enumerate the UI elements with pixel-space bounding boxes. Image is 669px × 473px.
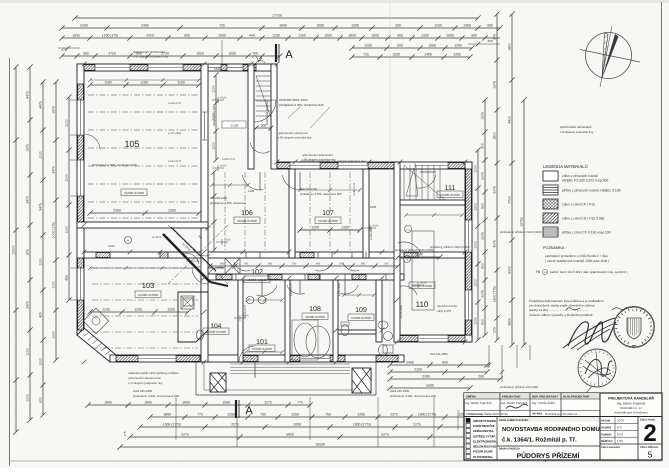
POZNAMKA note block bbox=[536, 245, 628, 274]
svg-text:e.225-2200: e.225-2200 bbox=[168, 132, 182, 135]
svg-text:1200 (175): 1200 (175) bbox=[102, 34, 118, 38]
svg-text:1200: 1200 bbox=[311, 226, 319, 230]
svg-text:e.180-2770: e.180-2770 bbox=[186, 260, 200, 263]
svg-text:900: 900 bbox=[481, 203, 485, 209]
svg-text:700: 700 bbox=[325, 413, 331, 417]
svg-text:275: 275 bbox=[493, 327, 497, 333]
svg-text:VYPRACOVAL: VYPRACOVAL bbox=[466, 413, 484, 416]
room label 105 bbox=[124, 139, 139, 149]
room 107 info box bbox=[315, 217, 341, 224]
svg-text:200: 200 bbox=[395, 24, 401, 28]
svg-text:oplechování dešťovodní: oplechování dešťovodní bbox=[302, 153, 333, 157]
svg-text:425: 425 bbox=[39, 312, 43, 318]
svg-text:1000: 1000 bbox=[316, 24, 324, 28]
exterior wall top (right section) bbox=[277, 162, 472, 169]
drawing frame left border bbox=[9, 58, 11, 466]
svg-text:KONSTRUKČNÍ: KONSTRUKČNÍ bbox=[473, 424, 495, 428]
svg-text:1830: 1830 bbox=[348, 34, 356, 38]
svg-text:600: 600 bbox=[397, 44, 403, 48]
window sill stubs left wall bbox=[70, 100, 77, 300]
svg-text:dveřní blok 280/280: dveřní blok 280/280 bbox=[266, 101, 269, 125]
svg-text:MĚŘÍTKO: MĚŘÍTKO bbox=[601, 439, 613, 443]
svg-text:1200: 1200 bbox=[474, 203, 478, 211]
bottom right vertical connectors bbox=[487, 345, 530, 382]
svg-text:2300: 2300 bbox=[422, 375, 430, 379]
svg-text:1100: 1100 bbox=[65, 119, 69, 126]
svg-text:1200: 1200 bbox=[341, 226, 349, 230]
top dim row window jambs bbox=[59, 52, 282, 59]
room 110 annotation bbox=[395, 248, 443, 260]
door frame stubs bbox=[222, 252, 418, 281]
svg-text:z tit okapem podposhé tiny: z tit okapem podposhé tiny bbox=[128, 381, 163, 385]
svg-text:1200: 1200 bbox=[421, 34, 429, 38]
svg-text:900: 900 bbox=[487, 24, 493, 28]
wall pier hatches bottom walls bbox=[116, 336, 465, 362]
svg-text:275: 275 bbox=[493, 34, 497, 40]
drawing frame right border bbox=[661, 2, 663, 461]
svg-text:6300: 6300 bbox=[508, 266, 512, 274]
svg-text:2300: 2300 bbox=[168, 209, 176, 213]
bottom right dim row 2 bbox=[387, 368, 489, 375]
bottom dim line 3 bbox=[137, 423, 502, 430]
door arc 103 bbox=[192, 268, 208, 284]
svg-text:1200: 1200 bbox=[272, 34, 280, 38]
room label 111 bbox=[445, 185, 456, 192]
wall junction ticks bbox=[82, 62, 468, 365]
signature scribble bbox=[563, 318, 616, 350]
room label 109 bbox=[355, 307, 367, 314]
svg-text:1200: 1200 bbox=[227, 413, 235, 417]
svg-text:2/988: 2/988 bbox=[108, 245, 115, 248]
svg-text:ODP. PROJEKTANT: ODP. PROJEKTANT bbox=[532, 395, 558, 399]
svg-text:1200: 1200 bbox=[351, 24, 359, 28]
svg-text:2x18.225-2250: 2x18.225-2250 bbox=[133, 389, 153, 393]
svg-text:725: 725 bbox=[219, 24, 225, 28]
room 111 info box bbox=[437, 191, 463, 198]
garage 105 joist dash-dot lines bbox=[87, 81, 201, 219]
svg-text:1935: 1935 bbox=[72, 34, 80, 38]
door arc 109 bbox=[340, 285, 358, 294]
bottom dim line 1 bbox=[85, 401, 312, 408]
svg-text:1575: 1575 bbox=[481, 112, 485, 120]
room label 104 bbox=[211, 323, 222, 330]
svg-text:1000 (1775): 1000 (1775) bbox=[353, 423, 371, 427]
svg-text:700: 700 bbox=[339, 263, 344, 266]
wall pier hatches top wall bbox=[84, 65, 256, 71]
official round stamp 1 bbox=[613, 306, 655, 348]
svg-text:2075: 2075 bbox=[481, 172, 485, 180]
svg-text:2275: 2275 bbox=[390, 413, 398, 417]
svg-text:1200: 1200 bbox=[248, 189, 255, 193]
bottom dim line 2 bbox=[147, 413, 482, 420]
window WB2 in bottom wall bbox=[300, 356, 330, 361]
svg-text:oplechování okenované z tit ok: oplechování okenované z tit okapem susbo… bbox=[300, 159, 366, 163]
room label 106 bbox=[241, 210, 253, 217]
svg-text:1100: 1100 bbox=[52, 281, 56, 288]
kitchen corner room 103 bbox=[83, 308, 108, 333]
svg-text:1000: 1000 bbox=[370, 205, 377, 209]
exterior wall entry east bbox=[271, 64, 277, 169]
room 106 info box bbox=[234, 217, 260, 224]
svg-text:1575: 1575 bbox=[52, 106, 56, 114]
room 107 annotation bbox=[297, 187, 362, 233]
svg-text:A: A bbox=[245, 405, 253, 417]
svg-text:Vedoucí odboru výstavby a živo: Vedoucí odboru výstavby a životního pros… bbox=[529, 313, 593, 317]
svg-text:10/97: 10/97 bbox=[617, 419, 625, 423]
svg-text:1100: 1100 bbox=[212, 113, 216, 120]
svg-text:PROJEKTOVÁ KANCELÁŘ: PROJEKTOVÁ KANCELÁŘ bbox=[608, 396, 654, 401]
door leaves bbox=[208, 172, 436, 378]
top dimension line row3 bbox=[59, 34, 500, 41]
svg-text:e.180-2770: e.180-2770 bbox=[168, 160, 182, 163]
svg-text:600: 600 bbox=[39, 397, 43, 403]
door arc bottom bbox=[239, 346, 254, 362]
svg-text:1200: 1200 bbox=[167, 308, 175, 312]
svg-text:překladové příklech #100 (2100: překladové příklech #100 (2100) bbox=[500, 230, 541, 234]
svg-text:ARCHIT.STAVEB.: ARCHIT.STAVEB. bbox=[473, 419, 497, 423]
svg-text:1260: 1260 bbox=[298, 34, 306, 38]
svg-text:2: 2 bbox=[643, 420, 656, 447]
window W7 in exterior wall bbox=[415, 163, 448, 168]
svg-text:±0,00: ±0,00 bbox=[420, 282, 427, 285]
shower room 104 bbox=[181, 296, 194, 309]
window W5 in exterior wall bbox=[290, 163, 320, 168]
room label 107 bbox=[322, 210, 334, 217]
svg-text:1:50: 1:50 bbox=[617, 439, 623, 443]
svg-text:HLAV.PROJEKTANT: HLAV.PROJEKTANT bbox=[563, 395, 590, 399]
toilet room 108 bbox=[341, 322, 349, 336]
svg-text:5: 5 bbox=[648, 450, 653, 460]
svg-text:obvod hornmky: obvod hornmky bbox=[437, 304, 457, 308]
corridor dim chain bbox=[207, 263, 400, 269]
interior wall 103 east bbox=[201, 228, 208, 362]
svg-text:přesklený příklech 4100 (2100): přesklený příklech 4100 (2100) bbox=[430, 245, 470, 249]
svg-text:775: 775 bbox=[297, 401, 303, 405]
svg-text:2300: 2300 bbox=[113, 209, 121, 213]
svg-text:1000: 1000 bbox=[371, 34, 379, 38]
exterior wall left diagonal corner bbox=[77, 328, 116, 362]
right dim line B bbox=[493, 11, 500, 342]
door arc 101 bbox=[257, 286, 278, 296]
interior wall V 108/109 bbox=[333, 280, 338, 362]
svg-text:AKCE A MÍSTO STAVBY: AKCE A MÍSTO STAVBY bbox=[499, 418, 529, 422]
right dim line D label 12750 bbox=[520, 97, 527, 347]
bottom right dim row 4 bbox=[387, 384, 472, 391]
top dim mark right bbox=[468, 39, 500, 46]
svg-text:700: 700 bbox=[292, 263, 297, 266]
corridor door arcs bbox=[208, 262, 417, 295]
svg-text:příčky z přesných tvárnic HEBE: příčky z přesných tvárnic HEBEL tl.100 bbox=[562, 189, 621, 193]
interior wall garage bottom H3 bbox=[77, 222, 208, 228]
svg-text:425: 425 bbox=[65, 275, 69, 281]
room 103 joist dash-dot lines bbox=[92, 268, 198, 348]
svg-text:e.145-1050: e.145-1050 bbox=[338, 282, 341, 296]
svg-text:1500: 1500 bbox=[364, 44, 372, 48]
svg-text:1400: 1400 bbox=[406, 361, 414, 365]
interior wall h 109 mid bbox=[338, 330, 376, 334]
door arc 108 bbox=[287, 285, 305, 294]
wall pier hatches right wall bbox=[466, 169, 472, 335]
svg-text:1500: 1500 bbox=[392, 53, 400, 57]
interior wall V 108 west bbox=[285, 280, 290, 362]
svg-text:1200: 1200 bbox=[357, 413, 365, 417]
svg-text:440: 440 bbox=[249, 34, 255, 38]
svg-text:PROJEKTANT: PROJEKTANT bbox=[502, 395, 521, 399]
window WR2 in right wall bbox=[466, 290, 471, 320]
interior wall 111/110 divider bbox=[400, 200, 465, 205]
svg-text:175: 175 bbox=[123, 431, 127, 436]
terrace column right hatched bbox=[352, 368, 371, 393]
svg-text:oplechování obetonované: oplechování obetonované bbox=[128, 376, 162, 380]
boiler room 109 bbox=[383, 332, 393, 354]
svg-text:1000 (175): 1000 (175) bbox=[52, 222, 56, 238]
svg-text:7700: 7700 bbox=[508, 196, 512, 204]
svg-text:1000: 1000 bbox=[474, 241, 478, 249]
svg-text:1000: 1000 bbox=[26, 394, 30, 402]
svg-text:z 8b okapem svodového tiny: z 8b okapem svodového tiny bbox=[133, 55, 169, 59]
room label 101 bbox=[256, 339, 268, 346]
svg-text:LEGENDA MATERIÁLŮ: LEGENDA MATERIÁLŮ bbox=[543, 164, 588, 169]
right section wall annotation bbox=[302, 153, 336, 162]
diagonal hall wall thick bbox=[163, 234, 228, 286]
svg-text:±0,000 dl 2500: ±0,000 dl 2500 bbox=[351, 316, 371, 320]
svg-text:zdivo z cihel CD / P15 tl.365: zdivo z cihel CD / P15 tl.365 bbox=[562, 217, 605, 221]
stamp2 tail line bbox=[545, 386, 592, 462]
svg-text:2x08.220-2250, 4250: 2x08.220-2250, 4250 bbox=[279, 98, 308, 102]
svg-text:2x 2275: 2x 2275 bbox=[152, 236, 162, 239]
diagonal hall wall thin bbox=[171, 227, 216, 271]
interior wall V 109 east bbox=[376, 280, 382, 342]
dropper line x222 bbox=[221, 40, 223, 64]
svg-text:±0,000 dl 2500: ±0,000 dl 2500 bbox=[206, 330, 226, 334]
window W3 in exterior wall bbox=[208, 65, 221, 70]
svg-text:775: 775 bbox=[197, 413, 203, 417]
exterior wall right bbox=[465, 162, 472, 342]
svg-text:1000: 1000 bbox=[218, 34, 226, 38]
svg-text:NOVOSTAVBA RODINNÉHO DOMU: NOVOSTAVBA RODINNÉHO DOMU bbox=[502, 425, 600, 433]
svg-text:900: 900 bbox=[471, 34, 477, 38]
top right section dims bbox=[349, 53, 472, 60]
svg-text:překladové d 900, obetonové 82: překladové d 900, obetonové 820 bbox=[300, 192, 342, 196]
room 110 tall inner rect bbox=[412, 231, 434, 310]
svg-text:1100: 1100 bbox=[212, 85, 216, 92]
svg-text:1200: 1200 bbox=[434, 24, 442, 28]
washbasin room 109 bbox=[378, 321, 388, 356]
room 103 info box bbox=[135, 291, 161, 298]
svg-text:±0,000 dl 2500: ±0,000 dl 2500 bbox=[124, 191, 144, 195]
svg-text:DRUH VÝKRESU: DRUH VÝKRESU bbox=[499, 447, 520, 451]
svg-text:1650: 1650 bbox=[196, 52, 204, 56]
svg-text:1200: 1200 bbox=[291, 413, 299, 417]
svg-text:900: 900 bbox=[83, 52, 89, 56]
bottom right dim row 3 bbox=[387, 375, 502, 382]
svg-text:875: 875 bbox=[26, 249, 30, 255]
svg-text:±0,000 dl 2500: ±0,000 dl 2500 bbox=[252, 347, 272, 351]
exterior wall bottom (right section) bbox=[398, 335, 472, 342]
entry vestibule stairs bbox=[250, 76, 273, 153]
window WB3 in bottom wall bbox=[418, 336, 448, 341]
svg-text:1100: 1100 bbox=[39, 151, 43, 158]
bottom vertical droppers bbox=[176, 397, 458, 447]
svg-text:1000: 1000 bbox=[324, 34, 332, 38]
svg-text:102: 102 bbox=[251, 269, 263, 276]
window WL3 in left wall bbox=[78, 268, 83, 300]
interior wall corridor bottom H5 bbox=[201, 274, 404, 280]
svg-text:ing. Martin Popelník: ing. Martin Popelník bbox=[465, 401, 492, 405]
svg-text:OK-RES: OK-RES bbox=[532, 412, 542, 415]
svg-text:1300: 1300 bbox=[463, 24, 471, 28]
svg-text:zdivo z cihel CP / P15: zdivo z cihel CP / P15 bbox=[562, 203, 595, 207]
svg-text:ZDRAV.INSTAL.: ZDRAV.INSTAL. bbox=[473, 429, 495, 433]
top dimension line 17750 bbox=[72, 14, 480, 21]
svg-text:ZMĚNA: ZMĚNA bbox=[466, 395, 476, 399]
wc room 104 bbox=[197, 330, 204, 340]
svg-text:2420: 2420 bbox=[146, 34, 154, 38]
top dim small 275 left bbox=[58, 46, 80, 52]
svg-text:pro dokončené stavby podle: pro dokončené stavby podle stavebního zá… bbox=[529, 304, 595, 308]
svg-text:±0,000 dl 2500: ±0,000 dl 2500 bbox=[305, 315, 325, 319]
svg-text:-0,100: -0,100 bbox=[230, 124, 239, 128]
room 109 info box bbox=[348, 314, 374, 321]
svg-text:±0,00: ±0,00 bbox=[224, 239, 231, 242]
terrace column left hatched bbox=[210, 373, 226, 392]
svg-text:1100: 1100 bbox=[104, 81, 111, 85]
svg-text:1000: 1000 bbox=[474, 165, 478, 173]
svg-text:±0,000 dl 2500: ±0,000 dl 2500 bbox=[412, 284, 432, 288]
legend LEGENDA MATERIALU bbox=[543, 164, 621, 237]
svg-text:Projektová dokumentace byla ov: Projektová dokumentace byla ověřena a je… bbox=[529, 299, 604, 303]
svg-text:ELEKTROINSTAL.: ELEKTROINSTAL. bbox=[473, 439, 498, 443]
svg-text:překladové d 900, obetonované: překladové d 900, obetonované 800 bbox=[390, 394, 437, 398]
svg-text:108: 108 bbox=[309, 306, 321, 313]
svg-text:2100: 2100 bbox=[415, 253, 423, 257]
svg-text:1600: 1600 bbox=[228, 52, 236, 56]
svg-text:3475: 3475 bbox=[39, 203, 43, 211]
svg-text:900: 900 bbox=[361, 263, 366, 266]
svg-text:±0,00: ±0,00 bbox=[372, 225, 379, 228]
svg-text:1100: 1100 bbox=[39, 358, 43, 365]
svg-text:2100: 2100 bbox=[414, 368, 422, 372]
interior wall entry west V3 bbox=[248, 64, 254, 169]
svg-text:POŽÁR.OCHR.: POŽÁR.OCHR. bbox=[473, 450, 493, 454]
right dim line A0 bbox=[474, 147, 481, 342]
svg-text:pažení oken/ dveří 20k ( dato: pažení oken/ dveří 20k ( dato splachovan… bbox=[550, 270, 628, 274]
svg-text:z tit okapem susbodné tiny: z tit okapem susbodné tiny bbox=[560, 130, 594, 134]
section mark A top bbox=[276, 44, 293, 62]
svg-text:±0,000 dl 2500: ±0,000 dl 2500 bbox=[247, 278, 267, 282]
right dim line A bbox=[481, 97, 488, 337]
svg-text:PB: PB bbox=[536, 270, 540, 274]
room 105 info box bbox=[121, 189, 147, 196]
svg-text:17750: 17750 bbox=[272, 14, 282, 18]
svg-text:1000: 1000 bbox=[446, 34, 454, 38]
bathtub room 101 bbox=[292, 320, 318, 360]
svg-text:3825: 3825 bbox=[508, 318, 512, 326]
door arc 106 bbox=[242, 175, 263, 190]
svg-text:přesklené příklech #100 (2100): přesklené příklech #100 (2100) bbox=[395, 248, 434, 252]
bottom dim 175 marks bbox=[123, 417, 479, 436]
svg-text:Rožmitál pod Třemšínem: Rožmitál pod Třemšínem bbox=[545, 412, 578, 416]
svg-text:±0,00: ±0,00 bbox=[220, 97, 227, 100]
elevation markers bbox=[212, 97, 427, 322]
svg-text:±0,000 dl 2500: ±0,000 dl 2500 bbox=[237, 219, 257, 223]
svg-text:1200: 1200 bbox=[453, 53, 461, 57]
top dimension line row2 bbox=[59, 24, 502, 31]
svg-text:900: 900 bbox=[481, 319, 485, 325]
wall pier hatches top wall right section bbox=[277, 163, 465, 169]
bottom right dim row 1 bbox=[387, 361, 489, 368]
svg-text:1A: 1A bbox=[544, 271, 547, 274]
svg-text:5200: 5200 bbox=[80, 24, 88, 28]
svg-text:109: 109 bbox=[355, 307, 367, 314]
svg-text:stavby za dne ................: stavby za dne ..........................… bbox=[529, 308, 588, 312]
interior wall garage east V2 bbox=[201, 64, 208, 228]
right dim line C bbox=[508, 11, 515, 347]
svg-text:zdivo z přesných tvárnic: zdivo z přesných tvárnic bbox=[562, 174, 598, 178]
svg-text:3475: 3475 bbox=[26, 196, 30, 204]
window WB1 in bottom wall bbox=[138, 356, 176, 361]
svg-text:700: 700 bbox=[384, 263, 389, 266]
svg-text:104: 104 bbox=[211, 323, 222, 330]
bottom dim line 5 bbox=[117, 443, 522, 450]
svg-text:měly 0,275: měly 0,275 bbox=[437, 309, 452, 313]
washbasin 101 bbox=[246, 297, 266, 304]
svg-text:e.180-2770: e.180-2770 bbox=[290, 282, 293, 296]
svg-text:1000: 1000 bbox=[52, 331, 56, 339]
svg-text:2400: 2400 bbox=[141, 24, 149, 28]
svg-text:1200: 1200 bbox=[474, 279, 478, 287]
room 108 info box bbox=[302, 313, 328, 320]
svg-text:1200: 1200 bbox=[454, 44, 462, 48]
interior wall V 101 west bbox=[238, 280, 243, 362]
compass rose bbox=[580, 26, 640, 87]
svg-text:1800: 1800 bbox=[104, 401, 112, 405]
svg-text:1800: 1800 bbox=[493, 132, 497, 140]
svg-text:105: 105 bbox=[124, 139, 139, 149]
room 101 info box bbox=[249, 345, 275, 352]
top right small dims bbox=[349, 44, 474, 51]
room 102 info box bbox=[244, 276, 270, 283]
diagonal hall small hatch bbox=[160, 252, 168, 258]
svg-text:±0,000 dl 2500: ±0,000 dl 2500 bbox=[318, 219, 338, 223]
svg-text:NEOZN.ROZVOD: NEOZN.ROZVOD bbox=[473, 445, 496, 449]
bathtub room 108 big bbox=[306, 326, 330, 358]
svg-text:1000: 1000 bbox=[293, 423, 301, 427]
exterior wall left bbox=[77, 64, 84, 335]
svg-text:2x8.220-2250: 2x8.220-2250 bbox=[300, 187, 318, 191]
svg-text:±0,000 dl 2500: ±0,000 dl 2500 bbox=[440, 193, 460, 197]
wall edge tiny texts bbox=[108, 102, 403, 318]
wall pier hatches left wall bbox=[78, 84, 84, 330]
svg-text:1130: 1130 bbox=[102, 308, 109, 312]
svg-text:950: 950 bbox=[442, 361, 448, 365]
door arc 107 bbox=[282, 175, 303, 190]
svg-text:HEBEL P2-500 tl.375 resp.300: HEBEL P2-500 tl.375 resp.300 bbox=[562, 178, 608, 182]
svg-text:odtlačkár spěšk #100 spěšteny: odtlačkár spěšk #100 spěšteny mřížkou bbox=[128, 371, 179, 375]
svg-text:107: 107 bbox=[322, 210, 334, 217]
svg-text:1800: 1800 bbox=[182, 401, 190, 405]
sink room 104 bbox=[183, 298, 193, 306]
svg-text:1000: 1000 bbox=[428, 44, 436, 48]
window gap V2 bbox=[202, 112, 207, 140]
svg-text:±0,000 dl 2500: ±0,000 dl 2500 bbox=[138, 293, 158, 297]
svg-text:A: A bbox=[285, 49, 293, 61]
left dimension line outer bbox=[12, 64, 19, 434]
svg-text:5600: 5600 bbox=[426, 384, 434, 388]
diagonal hall axis dash-dot bbox=[168, 225, 228, 284]
svg-text:1630: 1630 bbox=[214, 67, 221, 71]
svg-text:překladové d 900, obetonové: překladové d 900, obetonové bbox=[210, 201, 247, 205]
